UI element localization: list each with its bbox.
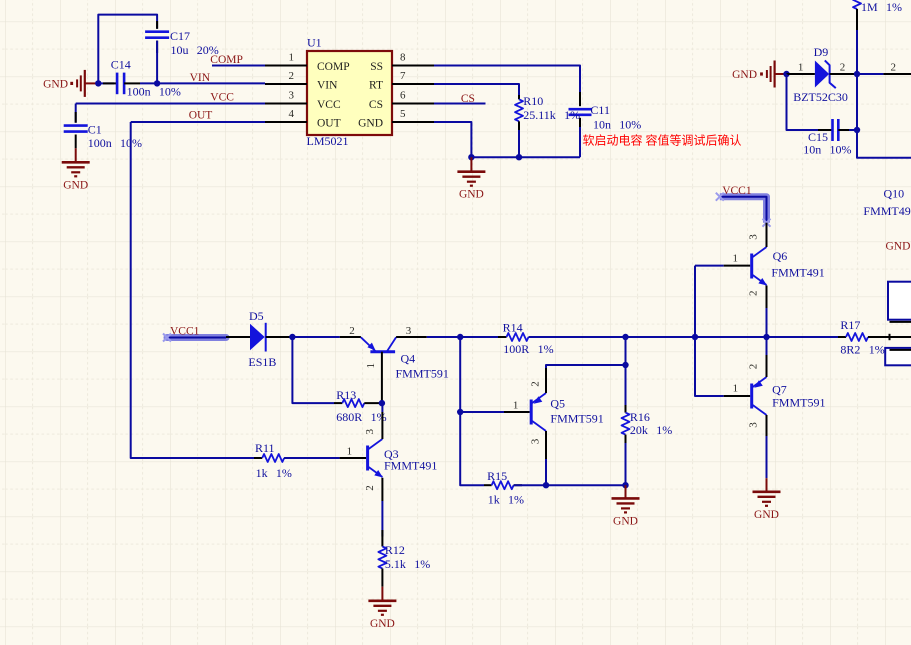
svg-text:3: 3 xyxy=(364,428,376,434)
svg-text:GND: GND xyxy=(613,515,638,527)
svg-text:Q10: Q10 xyxy=(884,187,905,201)
svg-text:VIN: VIN xyxy=(317,79,338,91)
svg-text:7: 7 xyxy=(400,70,406,82)
svg-text:BZT52C30: BZT52C30 xyxy=(793,90,848,104)
svg-text:SS: SS xyxy=(370,61,383,73)
svg-text:1: 1 xyxy=(289,51,295,63)
svg-text:FMMT591: FMMT591 xyxy=(396,366,449,380)
svg-text:Q7: Q7 xyxy=(772,383,787,397)
svg-text:25.11k1%: 25.11k1% xyxy=(523,108,580,122)
svg-text:R16: R16 xyxy=(630,410,650,424)
svg-text:3: 3 xyxy=(289,89,295,101)
svg-text:4: 4 xyxy=(289,108,295,120)
svg-text:R12: R12 xyxy=(385,543,405,557)
svg-text:FMMT591: FMMT591 xyxy=(550,411,603,425)
svg-text:VCC1: VCC1 xyxy=(170,326,200,338)
svg-text:R15: R15 xyxy=(487,469,507,483)
svg-text:R10: R10 xyxy=(523,94,543,108)
svg-text:2: 2 xyxy=(364,485,376,491)
svg-text:LM5021: LM5021 xyxy=(307,134,349,148)
svg-text:GND: GND xyxy=(370,618,395,630)
svg-text:COMP: COMP xyxy=(210,54,243,66)
svg-text:2: 2 xyxy=(349,325,355,337)
svg-text:VCC: VCC xyxy=(210,91,234,103)
svg-text:1: 1 xyxy=(733,383,739,395)
svg-text:5: 5 xyxy=(400,108,406,120)
svg-text:FMMT491: FMMT491 xyxy=(771,266,824,280)
svg-text:VCC1: VCC1 xyxy=(722,185,752,197)
svg-text:ES1B: ES1B xyxy=(248,355,276,369)
svg-text:100R1%: 100R1% xyxy=(503,342,553,356)
svg-text:3: 3 xyxy=(406,325,412,337)
svg-text:3: 3 xyxy=(748,422,760,428)
svg-text:GND: GND xyxy=(732,69,757,81)
svg-text:R11: R11 xyxy=(255,441,275,455)
svg-text:D5: D5 xyxy=(249,309,264,323)
svg-text:VCC: VCC xyxy=(317,99,341,111)
svg-text:D9: D9 xyxy=(814,45,829,59)
svg-text:OUT: OUT xyxy=(189,109,213,121)
svg-text:680R1%: 680R1% xyxy=(336,410,386,424)
svg-text:CS: CS xyxy=(369,99,383,111)
svg-text:C14: C14 xyxy=(111,57,131,71)
svg-text:8: 8 xyxy=(400,51,406,63)
svg-text:1: 1 xyxy=(513,399,519,411)
svg-text:VIN: VIN xyxy=(190,72,211,84)
svg-text:软启动电容 容值等调试后确认: 软启动电容 容值等调试后确认 xyxy=(583,133,742,148)
svg-text:Q5: Q5 xyxy=(550,397,565,411)
svg-text:R17: R17 xyxy=(840,318,860,332)
svg-text:FMMT591: FMMT591 xyxy=(772,396,825,410)
svg-text:2: 2 xyxy=(890,62,896,74)
svg-text:OUT: OUT xyxy=(317,117,341,129)
svg-text:1: 1 xyxy=(733,253,739,265)
svg-text:FMMT491: FMMT491 xyxy=(863,204,911,218)
svg-text:C11: C11 xyxy=(590,103,610,117)
svg-text:COMP: COMP xyxy=(317,61,350,73)
svg-text:U1: U1 xyxy=(307,36,322,50)
svg-text:3: 3 xyxy=(530,438,542,444)
svg-text:GND: GND xyxy=(358,117,383,129)
svg-text:1: 1 xyxy=(347,446,353,458)
svg-text:3: 3 xyxy=(748,234,760,240)
svg-text:2: 2 xyxy=(289,70,295,82)
svg-text:6: 6 xyxy=(400,89,406,101)
svg-text:2: 2 xyxy=(530,381,542,387)
svg-text:GND: GND xyxy=(459,189,484,201)
svg-text:2: 2 xyxy=(748,364,760,370)
svg-text:C1: C1 xyxy=(88,123,102,137)
svg-text:GND: GND xyxy=(754,509,779,521)
svg-text:GND: GND xyxy=(43,78,68,90)
svg-text:FMMT491: FMMT491 xyxy=(384,459,437,473)
svg-text:CS: CS xyxy=(461,93,475,105)
svg-text:1: 1 xyxy=(365,363,377,369)
svg-text:C17: C17 xyxy=(170,29,190,43)
svg-text:GND: GND xyxy=(886,240,911,252)
svg-text:R13: R13 xyxy=(336,388,356,402)
svg-text:Q4: Q4 xyxy=(401,352,416,366)
svg-text:1: 1 xyxy=(798,62,804,74)
svg-text:R14: R14 xyxy=(503,321,523,335)
svg-text:Q6: Q6 xyxy=(773,249,788,263)
svg-text:GND: GND xyxy=(63,179,88,191)
svg-text:RT: RT xyxy=(369,79,383,91)
svg-text:2: 2 xyxy=(840,62,846,74)
svg-text:2: 2 xyxy=(748,291,760,297)
